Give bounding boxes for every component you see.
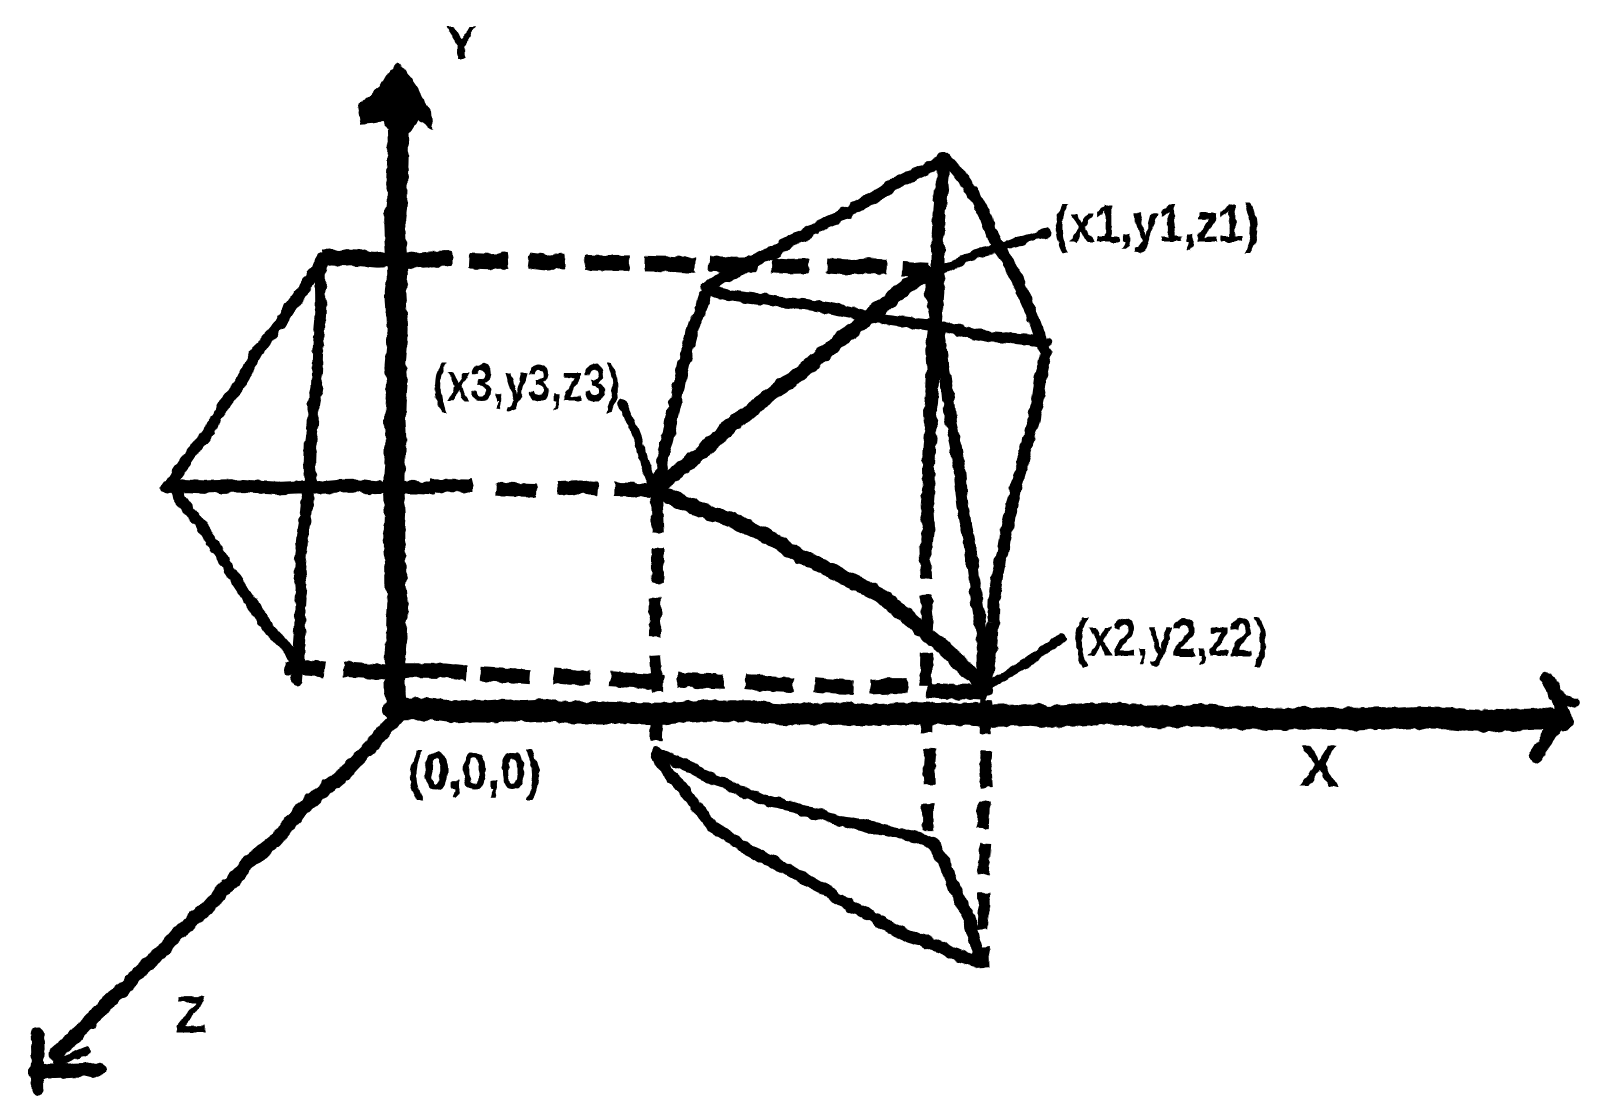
X axis arrowhead bbox=[1536, 679, 1564, 757]
edge B to x3 vertex bbox=[655, 288, 707, 487]
svg-text:Z: Z bbox=[175, 986, 207, 1044]
Z axis arrowhead bbox=[37, 1034, 38, 1089]
back face bottom-left edge bbox=[171, 484, 296, 661]
back face right edge bbox=[297, 257, 323, 680]
wedge lower edge bbox=[656, 755, 977, 961]
right curved edge bbox=[945, 158, 1046, 687]
leaning edge to x2 vertex bbox=[931, 285, 985, 688]
svg-text:(0,0,0): (0,0,0) bbox=[408, 742, 541, 801]
svg-text:(x1,y1,z1): (x1,y1,z1) bbox=[1054, 194, 1259, 254]
vertical dashed at x1 below bbox=[925, 545, 926, 578]
Y axis arrowhead bbox=[358, 63, 431, 136]
edge x3 vertex to x1 vertex bbox=[656, 273, 928, 487]
X axis shaft bbox=[393, 709, 1562, 721]
svg-text:(x3,y3,z3): (x3,y3,z3) bbox=[433, 354, 620, 413]
edge B to D bbox=[708, 291, 1046, 344]
wedge right bend edge bbox=[933, 843, 979, 958]
vertical dashed at x3 bbox=[657, 497, 658, 532]
top dashed line bbox=[322, 257, 452, 261]
mid dashed line bbox=[430, 479, 473, 493]
vertical dashed at x2 below bbox=[985, 700, 986, 734]
bottom dashed line bbox=[285, 667, 325, 669]
leader to x2 label bbox=[993, 638, 1063, 684]
svg-text:Y: Y bbox=[446, 17, 477, 69]
wedge upper edge bbox=[657, 752, 934, 843]
back face mid solid line bbox=[167, 486, 430, 489]
Z axis shaft bbox=[56, 718, 397, 1053]
edge apex to B bbox=[706, 158, 946, 288]
edge x3 vertex to x2 vertex bbox=[656, 490, 987, 688]
svg-text:(x2,y2,z2): (x2,y2,z2) bbox=[1074, 608, 1268, 668]
leader to x3 label bbox=[622, 404, 654, 486]
apex vertical edge bbox=[926, 158, 943, 545]
svg-text:X: X bbox=[1300, 734, 1339, 799]
Y axis shaft bbox=[394, 128, 398, 713]
back face top-left edge bbox=[172, 258, 323, 483]
leader to x1 label bbox=[932, 233, 1046, 273]
